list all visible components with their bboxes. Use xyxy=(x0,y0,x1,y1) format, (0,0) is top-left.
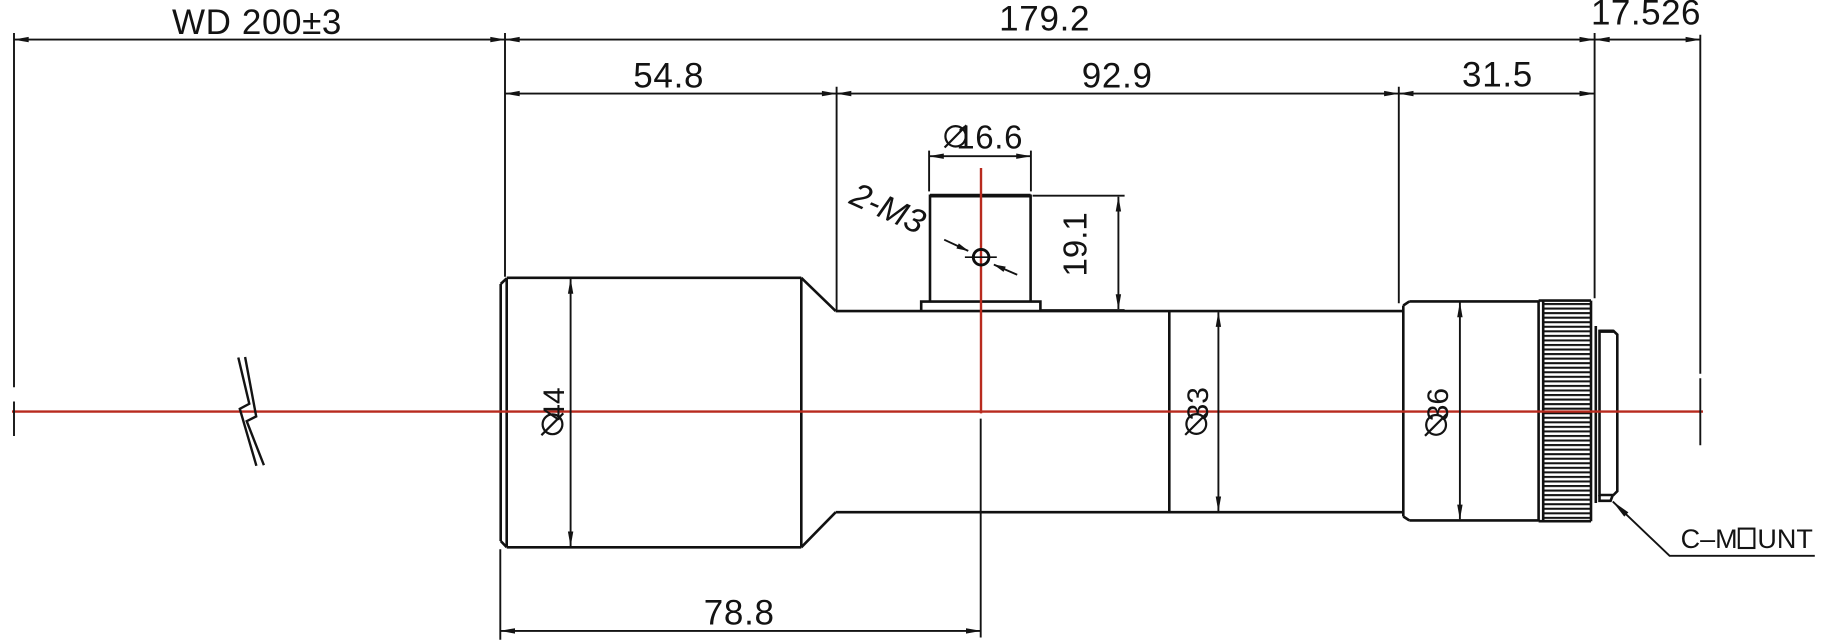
barrel D44 top edge xyxy=(507,276,802,279)
taper bottom xyxy=(801,512,835,547)
svg-text:WD 200±3: WD 200±3 xyxy=(172,3,342,42)
c-mount stub top edge thick xyxy=(1600,330,1614,333)
leader line C-MOUNT xyxy=(1613,502,1815,556)
knurl ring top edge xyxy=(1539,299,1591,302)
c-mount stub lip xyxy=(1600,495,1613,501)
break symbol line 2 xyxy=(245,357,264,465)
barrel D33 top edge xyxy=(836,310,1404,313)
svg-text:19.1: 19.1 xyxy=(1056,212,1093,276)
extension line left WD xyxy=(13,33,15,387)
c-mount stub outline xyxy=(1600,331,1618,495)
svg-text:179.2: 179.2 xyxy=(999,0,1090,39)
leader arrow 2-M3 upper xyxy=(944,240,968,251)
barrel D33 bottom edge xyxy=(836,511,1404,514)
M3 hole cross line xyxy=(965,256,997,258)
label diameter 33 rotated xyxy=(1182,387,1215,435)
svg-text:33: 33 xyxy=(1182,387,1215,420)
label diameter 16.6 xyxy=(945,119,1024,156)
extension line image plane upper xyxy=(1699,35,1701,374)
barrel D44 right face xyxy=(800,278,803,548)
knurl ring right face xyxy=(1590,301,1593,522)
svg-text:17.526: 17.526 xyxy=(1591,0,1701,33)
label C-MOUNT xyxy=(1681,524,1813,554)
joint line xyxy=(1168,311,1171,512)
extension line 78.8 right xyxy=(980,419,982,638)
svg-text:54.8: 54.8 xyxy=(633,57,704,96)
extension line d16.6 right xyxy=(1030,151,1032,192)
dimension line WD 200 xyxy=(14,39,505,41)
extension line 54.8/92.9 xyxy=(836,87,838,310)
knurl ring left face xyxy=(1537,301,1540,522)
red optical axis centerline xyxy=(12,410,1703,412)
dimension line 179.2 xyxy=(505,39,1594,41)
svg-text:16.6: 16.6 xyxy=(956,119,1023,156)
connector base plate xyxy=(921,302,1040,311)
barrel D44 bottom edge xyxy=(507,546,802,549)
dimension line 19.1 xyxy=(1117,197,1119,309)
extension line 19.1 top xyxy=(1033,195,1125,197)
knurl ring bottom edge xyxy=(1539,520,1591,523)
label diameter 44 rotated xyxy=(538,387,571,435)
extension line flange xyxy=(1594,33,1596,298)
extension line 19.1 bottom xyxy=(1041,309,1125,311)
front chamfer top xyxy=(501,278,507,284)
D36 left face xyxy=(1402,306,1405,517)
svg-text:78.8: 78.8 xyxy=(704,593,775,632)
extension line d16.6 left xyxy=(928,151,930,192)
extension line 92.9/31.5 xyxy=(1398,87,1400,303)
svg-text:36: 36 xyxy=(1422,388,1455,421)
dimension line d36 xyxy=(1459,303,1461,520)
svg-text:44: 44 xyxy=(538,387,571,420)
extension line lens front xyxy=(504,33,506,277)
dimension line 54.8 xyxy=(505,93,837,95)
taper top xyxy=(801,278,835,311)
front chamfer bottom xyxy=(501,541,507,547)
lens front face outer edge xyxy=(499,284,502,541)
connector block left edge xyxy=(929,195,932,302)
dimension line 92.9 xyxy=(837,93,1399,95)
dimension line 31.5 xyxy=(1399,93,1594,95)
dimension line 17.526 xyxy=(1595,39,1700,41)
knurl hatching xyxy=(1545,303,1591,519)
svg-text:C–M: C–M xyxy=(1681,524,1738,554)
extension line left WD below axis xyxy=(13,402,15,437)
connector block top edge xyxy=(930,194,1031,198)
red vertical centerline of block xyxy=(980,168,982,413)
leader arrow 2-M3 lower xyxy=(994,265,1017,275)
extension line 78.8 left xyxy=(499,549,501,639)
c-mount flange face xyxy=(1595,326,1598,503)
D36 chamfer top xyxy=(1403,301,1409,305)
svg-text:UNT: UNT xyxy=(1757,524,1813,554)
break symbol line 1 xyxy=(238,358,256,466)
dimension line d44 xyxy=(570,279,572,546)
extension line image plane lower xyxy=(1699,378,1701,445)
connector block right edge xyxy=(1029,195,1032,302)
barrel D36 bottom edge xyxy=(1409,519,1538,522)
dimension line d16.6 xyxy=(929,155,1031,157)
dimension line 78.8 xyxy=(500,630,980,632)
front face inner edge xyxy=(505,278,508,547)
label diameter 36 rotated xyxy=(1422,388,1455,436)
barrel D36 top edge xyxy=(1409,300,1538,303)
svg-text:92.9: 92.9 xyxy=(1082,57,1153,96)
dimension line d33 xyxy=(1217,312,1219,511)
D36 chamfer bottom xyxy=(1403,517,1409,521)
knurl ring inner line xyxy=(1542,301,1545,522)
svg-text:31.5: 31.5 xyxy=(1462,56,1533,95)
M3 hole xyxy=(973,249,989,265)
